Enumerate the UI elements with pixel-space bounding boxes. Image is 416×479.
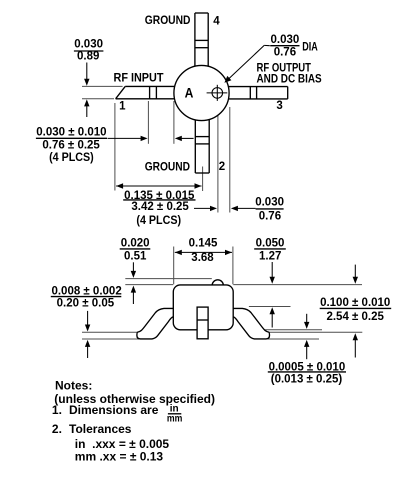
gull wing lead right: [230, 308, 269, 339]
arrow down to lead top: [86, 63, 88, 80]
hole circle with crosshair: [207, 85, 228, 101]
extension line from body right edge, x=229.8: [229, 107, 231, 213]
svg-text:1: 1: [119, 101, 126, 113]
arrow down to body bottom ext: [306, 314, 308, 323]
extension line right foot top long: [262, 331, 362, 333]
svg-text:3: 3: [276, 100, 282, 112]
lead pin 4 top ground lead: [195, 13, 208, 70]
svg-text:0.20 ± 0.05: 0.20 ± 0.05: [57, 298, 115, 310]
lead pin 3 RF output lead: [227, 87, 288, 99]
extension line left foot bottom: [82, 338, 139, 340]
reference line lead exit top 0.050: [249, 306, 291, 308]
svg-text:mm .xx = ± 0.13: mm .xx = ± 0.13: [75, 450, 164, 464]
svg-text:(4 PLCS): (4 PLCS): [49, 152, 94, 164]
svg-text:2.: 2.: [52, 422, 62, 436]
arrow right toward x=148.4: [108, 137, 142, 139]
arrow right toward x=217.9: [194, 207, 211, 209]
svg-text:(4 PLCS): (4 PLCS): [136, 215, 181, 227]
svg-text:0.030: 0.030: [255, 196, 284, 208]
svg-text:1.: 1.: [52, 403, 62, 417]
svg-text:0.020: 0.020: [121, 237, 150, 249]
svg-text:2: 2: [219, 161, 225, 173]
svg-text:Tolerances: Tolerances: [69, 422, 132, 436]
svg-text:1.27: 1.27: [259, 251, 281, 263]
svg-text:0.100 ± 0.010: 0.100 ± 0.010: [320, 297, 390, 309]
svg-text:0.76: 0.76: [274, 47, 296, 59]
arrow down to bump top line: [132, 262, 134, 271]
extension line package centerline, x=202.6: [202, 167, 204, 192]
extension line from lead1 tick, x=148.4: [147, 101, 149, 144]
arrow down to body top right: [271, 262, 273, 277]
arrow up to foot bottom ext: [87, 346, 89, 358]
marking letter A: [185, 85, 194, 101]
svg-text:2.54 ± 0.25: 2.54 ± 0.25: [326, 311, 384, 323]
svg-text:0.008 ± 0.002: 0.008 ± 0.002: [51, 285, 121, 297]
label GROUND pin4: [145, 14, 191, 27]
svg-text:0.030: 0.030: [271, 34, 300, 46]
lead pin 1 RF input lead: [116, 86, 176, 98]
arrow down to body top right far: [354, 265, 356, 278]
svg-text:0.030 ± 0.010: 0.030 ± 0.010: [36, 127, 106, 139]
center lead side view: [197, 307, 208, 339]
arrow left toward x=229.8: [237, 207, 255, 209]
extension line body top left: [125, 284, 173, 286]
bump on package top: [212, 280, 223, 291]
svg-text:0.76 ± 0.25: 0.76 ± 0.25: [42, 139, 100, 151]
extension line right foot bottom: [268, 338, 319, 340]
svg-text:Notes:: Notes:: [55, 378, 92, 392]
leader arrow to hole: [264, 44, 270, 46]
package body circle top view: [174, 65, 229, 120]
extension line body bottom right: [256, 329, 322, 331]
svg-text:(0.013 ± 0.25): (0.013 ± 0.25): [271, 373, 343, 385]
svg-text:DIA: DIA: [302, 41, 318, 55]
svg-text:GROUND: GROUND: [145, 161, 190, 174]
extension line bump top: [125, 278, 212, 280]
svg-text:0.050: 0.050: [256, 237, 285, 249]
svg-text:3.68: 3.68: [191, 252, 214, 264]
arrow left toward x=173.9: [181, 137, 193, 139]
side view extension line 0.145 left: [173, 247, 175, 285]
side view extension line 0.145 right: [232, 247, 234, 285]
svg-text:0.145: 0.145: [189, 237, 218, 249]
arrow up to seating line: [354, 340, 356, 358]
svg-text:0.76: 0.76: [259, 210, 281, 222]
extension line from body edge, x=173.9: [173, 101, 175, 144]
arrow up to lead exit line: [271, 314, 273, 328]
svg-text:A: A: [185, 85, 194, 101]
extension line, lead1 top edge ext: [82, 85, 123, 87]
gull wing lead left: [137, 308, 176, 339]
svg-text:3.42 ± 0.25: 3.42 ± 0.25: [131, 201, 189, 213]
arrow down to foot top ext: [87, 311, 89, 325]
extension line from hole center, x=217.9: [217, 107, 219, 213]
extension line body top right: [233, 284, 362, 286]
dimension 0.135 +/- 0.015 double arrow: [116, 185, 201, 187]
svg-text:Dimensions are: Dimensions are: [69, 403, 159, 417]
label GROUND pin2: [145, 161, 190, 174]
arrow up to foot bottom ext: [306, 346, 308, 359]
package body side view: [173, 285, 233, 330]
svg-text:GROUND: GROUND: [145, 14, 191, 27]
lead pin 2 bottom ground lead: [195, 116, 209, 173]
arrow up to body top line: [132, 292, 134, 304]
extension line, lead1 bottom edge ext: [82, 98, 114, 100]
svg-text:0.030: 0.030: [74, 39, 103, 51]
extension line left foot top: [82, 331, 139, 333]
svg-text:0.89: 0.89: [77, 50, 99, 62]
svg-text:4: 4: [213, 15, 220, 27]
label RF INPUT: [114, 72, 164, 85]
svg-text:AND DC BIAS: AND DC BIAS: [257, 73, 322, 86]
arrow up to lead bottom: [86, 106, 88, 118]
extension line from lead1 tip, x=114.9: [114, 103, 116, 191]
svg-text:mm: mm: [167, 413, 182, 424]
svg-text:RF INPUT: RF INPUT: [114, 72, 164, 85]
label RF OUTPUT AND DC BIAS: [257, 62, 312, 75]
svg-text:0.51: 0.51: [124, 251, 147, 263]
